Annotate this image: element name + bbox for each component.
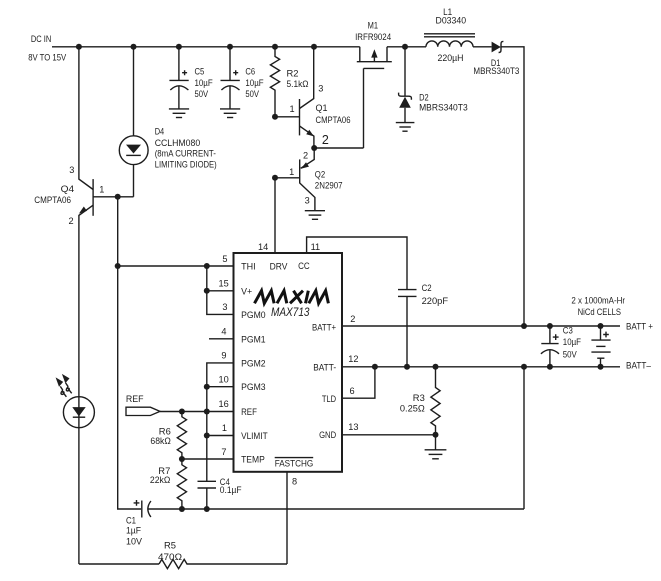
svg-text:BATT+: BATT+: [312, 322, 336, 332]
wire TLD pin 6: [342, 367, 375, 398]
transistor Q1: [300, 47, 314, 148]
svg-text:C2: C2: [422, 283, 432, 293]
value label R3 0.25: [400, 393, 425, 414]
wire Q2 base: [275, 177, 300, 179]
svg-text:VLIMIT: VLIMIT: [241, 431, 268, 441]
svg-text:FASTCHG: FASTCHG: [275, 458, 314, 468]
svg-text:THI: THI: [241, 262, 256, 272]
svg-text:68kΩ: 68kΩ: [150, 436, 171, 446]
svg-text:3: 3: [318, 84, 323, 94]
wire L1 to D1: [473, 46, 492, 48]
svg-text:1: 1: [289, 167, 294, 177]
svg-text:V+: V+: [241, 286, 252, 296]
svg-text:2 x 1000mA-Hr: 2 x 1000mA-Hr: [571, 296, 625, 306]
resistor R3: [431, 367, 440, 435]
svg-text:PGM3: PGM3: [241, 382, 266, 392]
svg-text:BATT–: BATT–: [626, 361, 652, 371]
svg-text:CMPTA06: CMPTA06: [34, 195, 71, 205]
svg-text:10V: 10V: [126, 537, 143, 547]
wire V+ pin 15: [207, 290, 234, 292]
svg-text:REF: REF: [126, 394, 144, 404]
node rail/C6: [227, 44, 233, 50]
svg-text:2: 2: [322, 133, 329, 147]
label D1 MBRS340T3: [473, 58, 519, 76]
svg-text:220µH: 220µH: [438, 53, 464, 63]
wire M1 drain to L1: [387, 46, 426, 48]
ground at C6: [220, 109, 240, 118]
value label R6 68k: [150, 427, 171, 447]
svg-text:M1: M1: [368, 21, 378, 31]
svg-text:MBRS340T3: MBRS340T3: [473, 66, 519, 76]
svg-text:BATT-: BATT-: [313, 363, 336, 373]
node rail/R2: [272, 44, 278, 50]
svg-text:D2: D2: [419, 93, 429, 103]
svg-text:Q4: Q4: [61, 184, 74, 194]
label Q1 CMPTA06: [316, 103, 351, 125]
IC pin name FASTCHG with overline: [275, 458, 314, 469]
svg-text:CCLHM080: CCLHM080: [155, 138, 201, 148]
wire BATT- pin 12 rail: [342, 366, 620, 368]
svg-text:CC: CC: [298, 261, 310, 271]
ground at R3: [425, 435, 447, 459]
node rail/C5: [176, 44, 182, 50]
capacitor C5: [169, 47, 188, 109]
wire BATT+ pin 2 rail: [342, 325, 620, 327]
svg-text:6: 6: [350, 386, 355, 396]
svg-text:7: 7: [221, 447, 226, 457]
svg-text:Q2: Q2: [315, 169, 325, 179]
node Q1/Q2 emitters junction: [311, 145, 317, 151]
node rail/Q4 collector: [76, 44, 82, 50]
wire DRV vertical from Q2 base to IC: [274, 178, 276, 253]
node C2 / BATT-: [404, 364, 410, 370]
svg-text:50V: 50V: [245, 89, 259, 99]
value label C2 220pF: [422, 283, 449, 306]
resistor R6: [177, 412, 186, 460]
svg-text:MBRS340T3: MBRS340T3: [419, 102, 468, 112]
node V+: [204, 288, 210, 294]
node THI wire / vertical: [115, 263, 121, 269]
wire V+/PGM0 vertical: [207, 266, 234, 314]
net label DC IN: [28, 34, 67, 62]
svg-text:8: 8: [292, 477, 297, 487]
svg-text:50V: 50V: [563, 350, 578, 360]
logo MAXIM: [255, 291, 329, 304]
wire LED to R5: [79, 563, 159, 565]
svg-text:Q1: Q1: [316, 103, 328, 113]
node R7 bottom / bottom wire: [179, 506, 185, 512]
svg-text:220pF: 220pF: [422, 296, 449, 306]
node REF / C4 vertical: [204, 409, 210, 415]
node THI / V+ vertical top: [204, 263, 210, 269]
value label C5 10uF 50V: [195, 67, 214, 99]
node VLIMIT: [204, 433, 210, 439]
svg-text:IRFR9024: IRFR9024: [355, 32, 391, 42]
capacitor C4: [198, 481, 217, 509]
svg-text:0.1µF: 0.1µF: [220, 485, 242, 495]
wire PGM3 pin 10: [207, 386, 234, 388]
svg-text:TEMP: TEMP: [241, 455, 265, 465]
svg-text:1µF: 1µF: [126, 526, 141, 536]
svg-text:10µF: 10µF: [563, 337, 582, 347]
capacitor C1: [134, 500, 524, 518]
LED indicator: [63, 397, 94, 428]
svg-text:PGM2: PGM2: [241, 358, 266, 368]
wire D1 to BATT+ rail: [501, 47, 524, 326]
node C3 / BATT+: [547, 323, 553, 329]
svg-text:(8mA CURRENT-: (8mA CURRENT-: [155, 149, 216, 159]
svg-text:2N2907: 2N2907: [315, 181, 343, 191]
ground at Q2 collector: [305, 211, 325, 220]
capacitor C6: [221, 47, 240, 109]
svg-text:MAX713: MAX713: [271, 307, 310, 319]
op-amp U1 MAX713 IC body: [234, 253, 343, 472]
node rail/D4: [131, 44, 137, 50]
inductor L1: [424, 34, 475, 47]
capacitor C2: [398, 290, 417, 367]
svg-text:D03340: D03340: [436, 16, 467, 26]
svg-text:LIMITING DIODE): LIMITING DIODE): [155, 160, 217, 170]
svg-text:C5: C5: [195, 67, 205, 77]
svg-text:2: 2: [350, 314, 355, 324]
svg-text:16: 16: [218, 399, 228, 409]
svg-text:3: 3: [305, 195, 310, 205]
label Q4 CMPTA06: [34, 184, 74, 205]
svg-text:3: 3: [222, 302, 227, 312]
label D2 MBRS340T3: [419, 93, 468, 113]
svg-text:1: 1: [99, 185, 104, 195]
label Q2 2N2907: [315, 169, 343, 190]
label 2 x 1000mA-Hr NiCd CELLS: [571, 296, 625, 317]
wire CC pin 11 to C2: [307, 237, 407, 289]
wire THI vertical (Q4 base to C1): [118, 197, 141, 509]
wire Q1 base: [275, 116, 300, 118]
node D1 / BATT+: [521, 323, 527, 329]
wire GND pin 13: [342, 434, 436, 436]
node battery / BATT+: [598, 323, 604, 329]
resistor R5: [159, 559, 287, 568]
svg-text:13: 13: [348, 422, 358, 432]
node PGM3: [204, 384, 210, 390]
svg-text:D4: D4: [155, 127, 165, 137]
svg-text:0.25Ω: 0.25Ω: [400, 403, 425, 413]
value label C6 10uF 50V: [245, 67, 264, 99]
wire DC input top rail: [52, 46, 360, 48]
svg-text:8V TO 15V: 8V TO 15V: [28, 52, 67, 62]
svg-text:50V: 50V: [195, 89, 209, 99]
svg-text:1: 1: [289, 104, 294, 114]
node TLD / BATT-: [372, 364, 378, 370]
node rail/Q1 collector: [311, 44, 317, 50]
LED emission arrows: [56, 374, 72, 397]
svg-text:R2: R2: [287, 69, 299, 79]
svg-text:C6: C6: [245, 67, 255, 77]
svg-text:3: 3: [69, 165, 74, 175]
svg-text:2: 2: [303, 151, 308, 161]
transistor M1 PMOS: [357, 47, 392, 148]
net label REF flag: [126, 394, 160, 416]
wire VLIMIT pin 1: [207, 435, 234, 437]
node battery / BATT-: [598, 364, 604, 370]
svg-text:R6: R6: [159, 427, 171, 437]
svg-text:5.1kΩ: 5.1kΩ: [287, 79, 309, 89]
node R3 / GND: [433, 432, 439, 438]
svg-text:1: 1: [222, 423, 227, 433]
wire THI pin 5: [118, 265, 234, 267]
battery BT1 2-cell: [591, 326, 610, 367]
wire FASTCHG pin 8 vertical: [286, 472, 288, 564]
svg-text:14: 14: [258, 242, 268, 252]
svg-text:TLD: TLD: [322, 394, 336, 404]
svg-text:DRV: DRV: [270, 262, 289, 272]
svg-text:10µF: 10µF: [195, 78, 214, 88]
svg-text:REF: REF: [241, 407, 257, 417]
svg-text:DC IN: DC IN: [31, 34, 51, 44]
wire PGM2 vertical down to C4: [207, 363, 234, 481]
node rail/D2: [402, 44, 408, 50]
svg-text:2: 2: [68, 216, 73, 226]
wire Q4 base to D4: [93, 196, 133, 198]
node TEMP / R6 / R7: [179, 456, 185, 462]
label D4 CCLHM080 (8mA CURRENT-LIMITING DIODE): [155, 127, 217, 170]
ground at D2: [396, 123, 415, 132]
node C4 bottom / bottom wire: [204, 506, 210, 512]
svg-text:11: 11: [311, 242, 321, 252]
node C3 / BATT-: [547, 364, 553, 370]
transistor Q2: [300, 148, 315, 211]
svg-text:470Ω: 470Ω: [158, 552, 182, 562]
node REF / R6: [179, 409, 185, 415]
svg-text:PGM0: PGM0: [241, 310, 266, 320]
label L1 D03340 220uH: [436, 7, 467, 63]
svg-text:R3: R3: [413, 393, 425, 403]
svg-text:22kΩ: 22kΩ: [150, 475, 171, 485]
ground at C5: [169, 109, 189, 118]
svg-text:10: 10: [218, 375, 228, 385]
svg-text:4: 4: [221, 327, 226, 337]
value label R2 5.1k: [287, 69, 309, 89]
svg-text:R5: R5: [164, 541, 176, 551]
svg-text:PGM1: PGM1: [241, 335, 266, 345]
node Q4 base / THI vertical: [115, 194, 121, 200]
svg-text:10µF: 10µF: [245, 78, 264, 88]
svg-text:NiCd CELLS: NiCd CELLS: [578, 307, 621, 317]
svg-text:C3: C3: [563, 326, 573, 336]
capacitor C3: [541, 326, 559, 367]
diode D2 schottky: [399, 47, 412, 123]
diode D4 current limiting: [119, 47, 148, 197]
wire emitters junction to M1 gate: [314, 147, 363, 149]
wire bottom return to BATT-: [523, 367, 525, 509]
svg-text:GND: GND: [319, 430, 336, 440]
svg-text:CMPTA06: CMPTA06: [316, 115, 351, 125]
value label C1 1uF 10V: [126, 516, 143, 547]
svg-text:5: 5: [222, 254, 227, 264]
wire PGM1 pin 4 stub: [209, 338, 234, 340]
svg-text:BATT +: BATT +: [626, 321, 653, 331]
node Q2 base / DRV: [272, 175, 278, 181]
node bottom return / BATT-: [521, 364, 527, 370]
value label C4 0.1uF: [220, 477, 242, 495]
resistor R7: [177, 459, 186, 509]
transistor Q4: [79, 47, 93, 564]
svg-text:12: 12: [348, 354, 358, 364]
value label C3 10uF 50V: [563, 326, 582, 360]
diode D1 schottky: [492, 41, 504, 52]
resistor R2: [270, 47, 279, 117]
wire TEMP pin 7: [182, 458, 234, 460]
svg-text:9: 9: [221, 351, 226, 361]
value label R5 470: [158, 541, 182, 563]
node R3 / BATT-: [433, 364, 439, 370]
value label R7 22k: [150, 466, 171, 485]
wire REF pin 16: [160, 411, 234, 413]
label M1 IRFR9024: [355, 21, 391, 43]
svg-text:15: 15: [218, 279, 228, 289]
node Q1 base / R2: [272, 114, 278, 120]
svg-text:C1: C1: [126, 516, 136, 526]
